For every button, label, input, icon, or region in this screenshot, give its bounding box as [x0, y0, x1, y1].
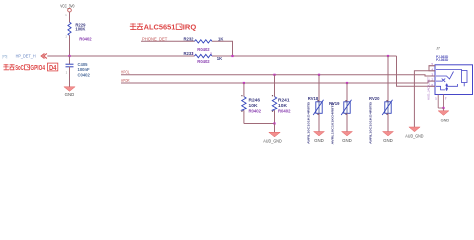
ground GND under RV20	[383, 132, 394, 143]
svg-text:AUD_GND: AUD_GND	[405, 133, 423, 138]
connector pin stubs	[429, 66, 436, 87]
svg-text:C0402: C0402	[78, 73, 91, 78]
annotation 连接ALC5651的IRQ	[130, 23, 143, 29]
svg-text:GPIO4: GPIO4	[30, 65, 45, 72]
wire R229 to main net	[69, 35, 71, 56]
svg-text:100K: 100K	[75, 27, 85, 32]
ground GND under RV18	[314, 132, 325, 143]
wire HPOL	[121, 75, 435, 76]
svg-text:R246: R246	[249, 97, 261, 102]
power symbol VCC_3V0	[60, 3, 75, 22]
svg-text:R0402: R0402	[197, 59, 210, 64]
resistor R241	[272, 74, 291, 124]
resistor R246	[242, 82, 262, 124]
ground GND under J7	[438, 111, 449, 123]
wire HP_DET_H main horizontal	[47, 55, 194, 57]
svg-text:SoC: SoC	[15, 65, 24, 72]
svg-text:HPOR: HPOR	[121, 78, 130, 83]
svg-text:R0402: R0402	[197, 47, 210, 52]
svg-text:GND: GND	[383, 138, 393, 143]
annotation 连接SoC的GPIO4 D4	[3, 64, 14, 70]
svg-text:[P5]: [P5]	[2, 54, 7, 58]
varistor RV18	[307, 74, 324, 144]
connector pin numbers	[432, 62, 434, 87]
svg-text:AUD_GND: AUD_GND	[263, 138, 281, 143]
jack symbol inside J7	[436, 70, 467, 92]
node junction R229/C405	[68, 55, 70, 57]
svg-text:100nF: 100nF	[78, 67, 91, 72]
svg-text:R232: R232	[184, 36, 195, 41]
off-page connector HP_DET_H	[2, 54, 47, 59]
varistor RV19	[329, 82, 352, 145]
svg-text:10K: 10K	[278, 103, 288, 108]
pin marks	[317, 100, 318, 101]
svg-text:R0402: R0402	[278, 109, 291, 114]
svg-text:HPOL: HPOL	[121, 69, 130, 74]
wire R246/R241 commons	[244, 123, 275, 125]
varistor RV20	[369, 55, 393, 144]
resistor R233	[184, 51, 223, 64]
svg-text:GND: GND	[441, 118, 450, 123]
svg-text:AVRL10C101KG4R8TB: AVRL10C101KG4R8TB	[307, 101, 311, 144]
svg-text:ALC5651: ALC5651	[144, 23, 176, 32]
capacitor C405	[66, 56, 91, 87]
svg-text:AUD_JACK_DET: AUD_JACK_DET	[427, 77, 431, 100]
svg-text:GND: GND	[342, 138, 352, 143]
svg-text:J7: J7	[436, 47, 440, 51]
wire HPOR	[121, 81, 435, 83]
svg-text:1K: 1K	[217, 56, 222, 61]
wire R232 out	[212, 41, 233, 56]
svg-text:VCC_3V0: VCC_3V0	[60, 3, 75, 8]
svg-text:PJ-363D: PJ-363D	[436, 58, 449, 62]
connector J7 bottom pins to GND	[435, 95, 447, 111]
svg-text:10K: 10K	[249, 103, 259, 108]
svg-text:R0402: R0402	[249, 109, 262, 114]
svg-text:IRQ: IRQ	[183, 23, 197, 32]
resistor R232	[184, 36, 224, 52]
svg-text:GND: GND	[314, 138, 324, 143]
svg-text:RV18: RV18	[308, 96, 319, 101]
wire PHONE_DET stub	[141, 40, 195, 42]
ground AUD_GND under R241	[263, 132, 281, 143]
resistor R229	[65, 13, 92, 41]
wire jack ground pins to AUD_GND	[414, 66, 435, 127]
wire PHONE_DET to jack pin	[397, 56, 436, 86]
svg-text:PHONE_DET: PHONE_DET	[142, 36, 168, 41]
connector J7	[435, 47, 473, 95]
svg-text:HP_DET_H: HP_DET_H	[16, 54, 36, 59]
node junction R232/R233	[231, 55, 233, 57]
ground GND under C405	[64, 87, 75, 97]
svg-text:AVRL10C101KG4R8TB: AVRL10C101KG4R8TB	[331, 101, 335, 144]
svg-text:GND: GND	[65, 92, 75, 97]
svg-text:1K: 1K	[218, 36, 223, 41]
svg-text:AVRL10C101KG4R8TB: AVRL10C101KG4R8TB	[369, 101, 373, 144]
wire PHONE_DET main run	[212, 55, 397, 57]
svg-text:R0402: R0402	[79, 36, 92, 41]
svg-text:RV20: RV20	[369, 96, 380, 101]
svg-text:R241: R241	[278, 97, 290, 102]
ground AUD_GND right	[405, 127, 423, 138]
ground GND under RV19	[342, 132, 353, 143]
